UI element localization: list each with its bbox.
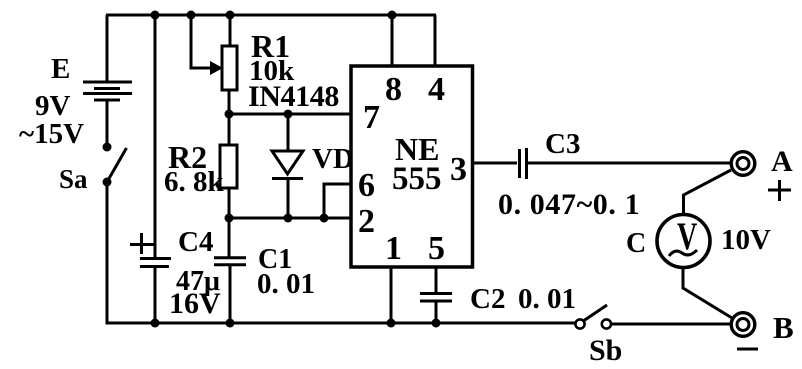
svg-text:16V: 16V [169,287,221,320]
svg-text:7: 7 [363,99,380,136]
svg-text:0. 01: 0. 01 [518,283,576,315]
svg-text:8: 8 [385,71,402,108]
svg-text:10V: 10V [721,224,771,256]
svg-text:A: A [771,145,793,178]
svg-text:C3: C3 [545,128,580,160]
svg-text:C4: C4 [178,226,213,258]
svg-text:Sb: Sb [589,334,622,367]
svg-text:0. 01: 0. 01 [257,268,315,300]
svg-text:Sa: Sa [59,164,88,194]
svg-text:E: E [51,53,70,85]
svg-text:6: 6 [358,167,375,204]
svg-text:6. 8k: 6. 8k [164,166,225,198]
svg-text:C: C [626,228,646,259]
svg-text:~15V: ~15V [19,118,84,150]
svg-text:IN4148: IN4148 [248,80,339,113]
svg-text:B: B [773,310,794,345]
svg-text:V: V [677,216,698,258]
svg-text:1: 1 [385,230,402,267]
svg-text:C2: C2 [470,283,505,315]
svg-text:5: 5 [428,230,445,267]
svg-text:555: 555 [392,161,442,197]
svg-text:0. 047~0. 1: 0. 047~0. 1 [498,188,640,221]
svg-text:4: 4 [428,71,445,108]
svg-text:3: 3 [450,151,467,188]
svg-text:2: 2 [358,203,375,240]
svg-text:VD: VD [312,143,354,175]
